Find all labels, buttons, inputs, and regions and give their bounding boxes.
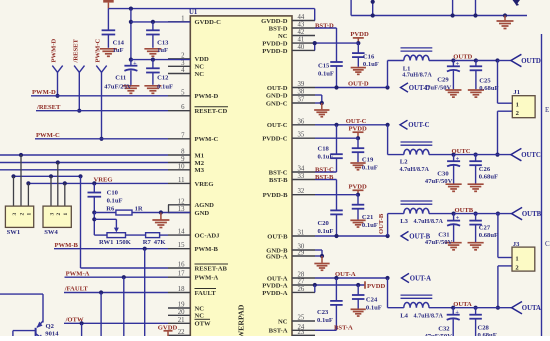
svg-text:15: 15 xyxy=(178,242,185,249)
svg-text:M1: M1 xyxy=(195,152,205,159)
svg-text:2: 2 xyxy=(56,213,62,216)
svg-text:C11: C11 xyxy=(115,75,126,82)
svg-text:C18: C18 xyxy=(318,145,330,152)
svg-text:Q2: Q2 xyxy=(46,323,55,330)
svg-text:41: 41 xyxy=(298,37,305,44)
svg-text:C15: C15 xyxy=(318,63,330,70)
svg-text:RW1: RW1 xyxy=(99,239,113,246)
svg-text:+: + xyxy=(133,60,137,67)
svg-text:OUT-A: OUT-A xyxy=(335,271,356,278)
svg-text:47uF/50V: 47uF/50V xyxy=(425,239,453,246)
svg-text:OUTC: OUTC xyxy=(452,148,471,155)
svg-text:OUT-C: OUT-C xyxy=(346,118,367,125)
svg-text:44: 44 xyxy=(298,14,305,21)
svg-text:J1: J1 xyxy=(513,89,520,96)
svg-text:1: 1 xyxy=(516,101,519,108)
svg-text:OUTB: OUTB xyxy=(522,211,542,218)
svg-text:+: + xyxy=(456,155,460,162)
svg-text:21: 21 xyxy=(178,317,185,324)
svg-text:OC-ADJ: OC-ADJ xyxy=(195,233,221,240)
svg-text:BST-B: BST-B xyxy=(269,177,288,184)
svg-text:PWM-D: PWM-D xyxy=(32,89,56,96)
svg-text:0.68uF: 0.68uF xyxy=(478,332,497,336)
svg-text:OUT-D: OUT-D xyxy=(267,85,288,92)
svg-text:C29: C29 xyxy=(437,77,449,84)
svg-text:4.7uH/8.7A: 4.7uH/8.7A xyxy=(400,167,430,173)
svg-text:0.68uF: 0.68uF xyxy=(479,174,498,181)
svg-text:1: 1 xyxy=(515,256,518,263)
svg-text:OUTD: OUTD xyxy=(453,53,472,60)
svg-text:GVDD-C: GVDD-C xyxy=(195,19,222,26)
svg-text:OUTC: OUTC xyxy=(521,152,541,159)
svg-text:PVDD: PVDD xyxy=(367,283,386,290)
svg-text:8: 8 xyxy=(181,149,185,156)
svg-text:4.7uH/8.7A: 4.7uH/8.7A xyxy=(414,313,444,319)
svg-text:C27: C27 xyxy=(479,225,491,232)
svg-text:GND-C: GND-C xyxy=(266,100,288,107)
svg-text:C28: C28 xyxy=(478,325,490,332)
svg-text:C14: C14 xyxy=(113,39,125,46)
svg-text:OUT-B: OUT-B xyxy=(267,233,288,240)
svg-text:FAULT: FAULT xyxy=(195,290,217,297)
svg-text:POWERPAD: POWERPAD xyxy=(237,304,246,336)
svg-text:23: 23 xyxy=(298,329,305,336)
svg-text:BST-A: BST-A xyxy=(334,325,353,332)
svg-text:OUT-A: OUT-A xyxy=(410,275,431,282)
svg-text:OUT-A: OUT-A xyxy=(267,275,288,282)
svg-text:GVDD-D: GVDD-D xyxy=(261,18,288,25)
svg-text:PWM-A: PWM-A xyxy=(66,270,90,277)
svg-text:35: 35 xyxy=(298,132,305,139)
svg-text:OUT-C: OUT-C xyxy=(267,122,288,129)
svg-text:0.68uF: 0.68uF xyxy=(479,232,498,239)
svg-text:C24: C24 xyxy=(366,297,378,304)
svg-text:/FAULT: /FAULT xyxy=(64,286,89,293)
svg-text:SW4: SW4 xyxy=(44,229,58,236)
svg-text:C16: C16 xyxy=(363,53,375,60)
svg-text:NC: NC xyxy=(195,313,205,320)
svg-text:47uF/50V: 47uF/50V xyxy=(425,178,453,185)
svg-text:PVDD-D: PVDD-D xyxy=(262,48,288,55)
svg-text:OUTD: OUTD xyxy=(521,58,541,65)
svg-text:12: 12 xyxy=(178,198,185,205)
svg-text:R7: R7 xyxy=(143,239,152,246)
svg-text:C20: C20 xyxy=(318,220,330,227)
svg-text:0.1uF: 0.1uF xyxy=(318,71,334,78)
svg-text:U1: U1 xyxy=(189,9,198,16)
svg-text:18: 18 xyxy=(178,286,185,293)
svg-text:2: 2 xyxy=(19,213,25,216)
svg-text:C25: C25 xyxy=(479,77,491,84)
svg-text:150K: 150K xyxy=(116,239,132,246)
svg-text:BST-B: BST-B xyxy=(315,174,334,181)
svg-text:0.68uF: 0.68uF xyxy=(479,85,498,92)
svg-text:47uF/25V: 47uF/25V xyxy=(104,84,132,91)
svg-text:43: 43 xyxy=(298,22,305,29)
svg-text:47uF/50V: 47uF/50V xyxy=(424,84,452,91)
svg-text:3: 3 xyxy=(49,213,55,216)
svg-text:C: C xyxy=(545,240,550,248)
svg-text:E: E xyxy=(545,106,549,114)
svg-text:25: 25 xyxy=(298,315,305,322)
svg-text:L3: L3 xyxy=(400,218,408,225)
svg-text:OTW: OTW xyxy=(195,321,212,328)
svg-text:6: 6 xyxy=(181,104,185,111)
svg-text:47K: 47K xyxy=(154,239,167,246)
svg-text:33: 33 xyxy=(298,173,305,180)
svg-text:PWM-D: PWM-D xyxy=(51,38,58,62)
svg-text:BST-C: BST-C xyxy=(269,169,288,176)
svg-text:PVDD-B: PVDD-B xyxy=(263,192,289,199)
svg-text:0.1uF: 0.1uF xyxy=(107,197,123,204)
svg-text:RESET-CD: RESET-CD xyxy=(195,108,228,115)
svg-text:0.1uF: 0.1uF xyxy=(317,317,333,324)
svg-text:NC: NC xyxy=(195,64,205,71)
svg-text:C21: C21 xyxy=(362,214,373,221)
svg-text:32: 32 xyxy=(298,188,305,195)
svg-text:OUT-C: OUT-C xyxy=(408,122,429,129)
svg-text:AGND: AGND xyxy=(195,202,215,209)
svg-text:37: 37 xyxy=(298,97,305,104)
svg-text:14: 14 xyxy=(178,229,185,236)
svg-text:PWM-C: PWM-C xyxy=(36,132,60,139)
svg-text:1: 1 xyxy=(63,213,69,216)
svg-text:2: 2 xyxy=(181,52,185,59)
svg-text:VDD: VDD xyxy=(195,56,210,63)
svg-text:L1: L1 xyxy=(403,65,411,72)
svg-text:20: 20 xyxy=(178,309,185,316)
svg-text:PWM-C: PWM-C xyxy=(95,38,102,62)
svg-text:1uF: 1uF xyxy=(113,47,124,54)
svg-text:C19: C19 xyxy=(362,156,374,163)
svg-text:C10: C10 xyxy=(107,189,119,196)
svg-text:1R: 1R xyxy=(135,205,143,212)
svg-text:M3: M3 xyxy=(195,167,205,174)
svg-text:3: 3 xyxy=(181,60,185,67)
svg-text:NC: NC xyxy=(278,318,288,325)
svg-text:4.7uH/8.7A: 4.7uH/8.7A xyxy=(402,72,432,78)
svg-text:19: 19 xyxy=(178,302,185,309)
svg-text:38: 38 xyxy=(298,89,305,96)
svg-text:31: 31 xyxy=(298,230,305,237)
svg-text:1uF: 1uF xyxy=(157,47,168,54)
svg-text:7: 7 xyxy=(181,132,185,139)
svg-text:PWM-C: PWM-C xyxy=(195,136,219,143)
svg-text:GND-A: GND-A xyxy=(266,253,288,260)
svg-text:VREG: VREG xyxy=(195,181,214,188)
svg-text:+: + xyxy=(456,60,460,67)
svg-text:PWM-A: PWM-A xyxy=(195,275,219,282)
svg-text:0.1uF: 0.1uF xyxy=(366,305,382,312)
svg-text:GND: GND xyxy=(195,210,210,217)
svg-text:PVDD-A: PVDD-A xyxy=(262,290,288,297)
svg-text:9014: 9014 xyxy=(45,331,59,337)
svg-text:C12: C12 xyxy=(157,75,169,82)
svg-text:PVDD-D: PVDD-D xyxy=(262,41,288,48)
svg-text:10: 10 xyxy=(178,163,185,170)
svg-text:34: 34 xyxy=(298,166,305,173)
svg-text:39: 39 xyxy=(298,81,305,88)
svg-text:PVDD-C: PVDD-C xyxy=(262,136,288,143)
svg-text:OUTA: OUTA xyxy=(453,301,472,308)
svg-text:36: 36 xyxy=(298,118,305,125)
svg-text:J3: J3 xyxy=(513,241,520,248)
svg-text:5: 5 xyxy=(181,89,185,96)
svg-text:NC: NC xyxy=(278,33,288,40)
svg-text:C26: C26 xyxy=(479,166,491,173)
svg-text:SW1: SW1 xyxy=(7,229,21,236)
svg-text:NC: NC xyxy=(195,305,205,312)
svg-text:OUT-B: OUT-B xyxy=(378,213,385,234)
svg-text:3: 3 xyxy=(12,213,18,216)
svg-text:C32: C32 xyxy=(438,326,450,333)
svg-text:RESET-AB: RESET-AB xyxy=(195,265,228,272)
svg-text:0.1uF: 0.1uF xyxy=(318,153,334,160)
svg-text:PWM-D: PWM-D xyxy=(195,93,219,100)
svg-text:OUTA: OUTA xyxy=(522,305,541,312)
svg-text:4.7uH/8.7A: 4.7uH/8.7A xyxy=(414,219,444,225)
svg-text:40: 40 xyxy=(298,44,305,51)
svg-text:17: 17 xyxy=(178,271,185,278)
svg-text:16: 16 xyxy=(178,262,185,269)
svg-text:OUT-D: OUT-D xyxy=(348,81,369,88)
svg-text:11: 11 xyxy=(178,177,185,184)
svg-text:PWM-B: PWM-B xyxy=(195,246,219,253)
svg-text:C13: C13 xyxy=(157,39,169,46)
svg-text:/RESET: /RESET xyxy=(73,38,80,63)
svg-text:0.1uF: 0.1uF xyxy=(362,222,378,229)
svg-text:0.1uF: 0.1uF xyxy=(362,164,378,171)
svg-text:L2: L2 xyxy=(400,159,408,166)
svg-text:0.1uF: 0.1uF xyxy=(318,228,334,235)
svg-text:29: 29 xyxy=(298,250,305,257)
svg-text:OUTB: OUTB xyxy=(455,207,474,214)
svg-text:42: 42 xyxy=(298,29,305,36)
svg-text:27: 27 xyxy=(298,279,305,286)
svg-text:0.1uF: 0.1uF xyxy=(363,61,379,68)
svg-text:1: 1 xyxy=(27,213,33,216)
svg-text:BST-A: BST-A xyxy=(269,328,288,335)
svg-text:C30: C30 xyxy=(437,171,449,178)
svg-text:PVDD-A: PVDD-A xyxy=(262,282,288,289)
svg-text:22: 22 xyxy=(178,329,185,336)
svg-text:28: 28 xyxy=(298,272,305,279)
svg-text:+: + xyxy=(455,309,459,316)
svg-text:BST-D: BST-D xyxy=(269,25,288,32)
svg-text:NC: NC xyxy=(195,71,205,78)
svg-text:C31: C31 xyxy=(438,232,449,239)
svg-text:L4: L4 xyxy=(400,312,408,319)
svg-text:4: 4 xyxy=(181,67,185,74)
svg-text:9: 9 xyxy=(181,156,185,163)
svg-text:26: 26 xyxy=(298,286,305,293)
svg-text:C23: C23 xyxy=(317,309,329,316)
svg-text:PWM-B: PWM-B xyxy=(55,242,79,249)
svg-text:BST-C: BST-C xyxy=(315,166,334,173)
svg-text:+: + xyxy=(456,215,460,222)
svg-text:M2: M2 xyxy=(195,160,205,167)
svg-text:/RESET: /RESET xyxy=(36,104,61,111)
svg-text:GND-D: GND-D xyxy=(266,92,288,99)
svg-text:VREG: VREG xyxy=(94,177,113,184)
svg-text:R6: R6 xyxy=(106,205,115,212)
svg-text:0.1uF: 0.1uF xyxy=(157,84,173,91)
